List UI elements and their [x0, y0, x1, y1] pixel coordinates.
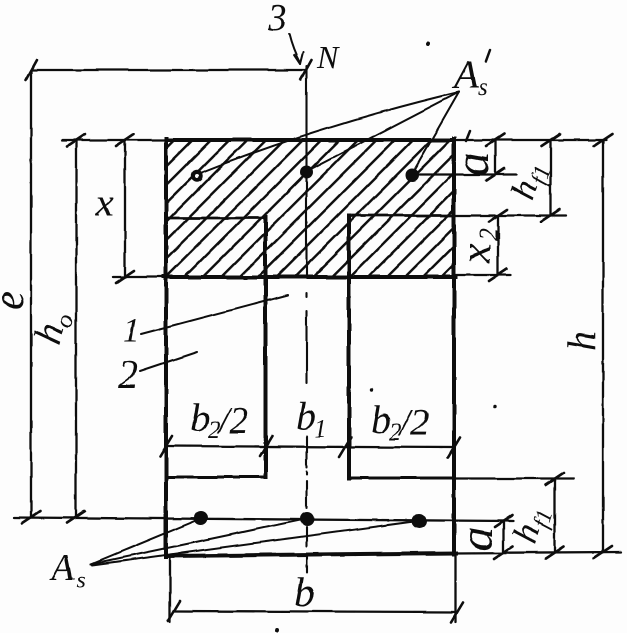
svg-text:b: b — [296, 393, 316, 438]
svg-text:b: b — [190, 395, 210, 440]
svg-text:x: x — [95, 180, 114, 225]
svg-text:a: a — [450, 527, 503, 551]
svg-text:x: x — [451, 243, 500, 264]
svg-text:1: 1 — [123, 312, 140, 349]
svg-text:A: A — [451, 52, 479, 97]
svg-text:2: 2 — [474, 228, 503, 241]
svg-text:s: s — [478, 74, 488, 101]
svg-text:3: 3 — [267, 0, 287, 39]
svg-text:2: 2 — [118, 352, 138, 397]
svg-text:1: 1 — [314, 416, 327, 443]
svg-text:h: h — [559, 331, 604, 351]
svg-text:b: b — [294, 570, 315, 616]
svg-text:/2: /2 — [398, 402, 430, 444]
svg-text:A: A — [48, 547, 75, 589]
svg-text:N: N — [316, 39, 340, 75]
svg-text:b: b — [371, 397, 391, 442]
svg-text:/2: /2 — [217, 400, 249, 442]
svg-text:a: a — [446, 152, 499, 176]
svg-text:e: e — [0, 291, 33, 311]
svg-text:s: s — [76, 568, 85, 594]
